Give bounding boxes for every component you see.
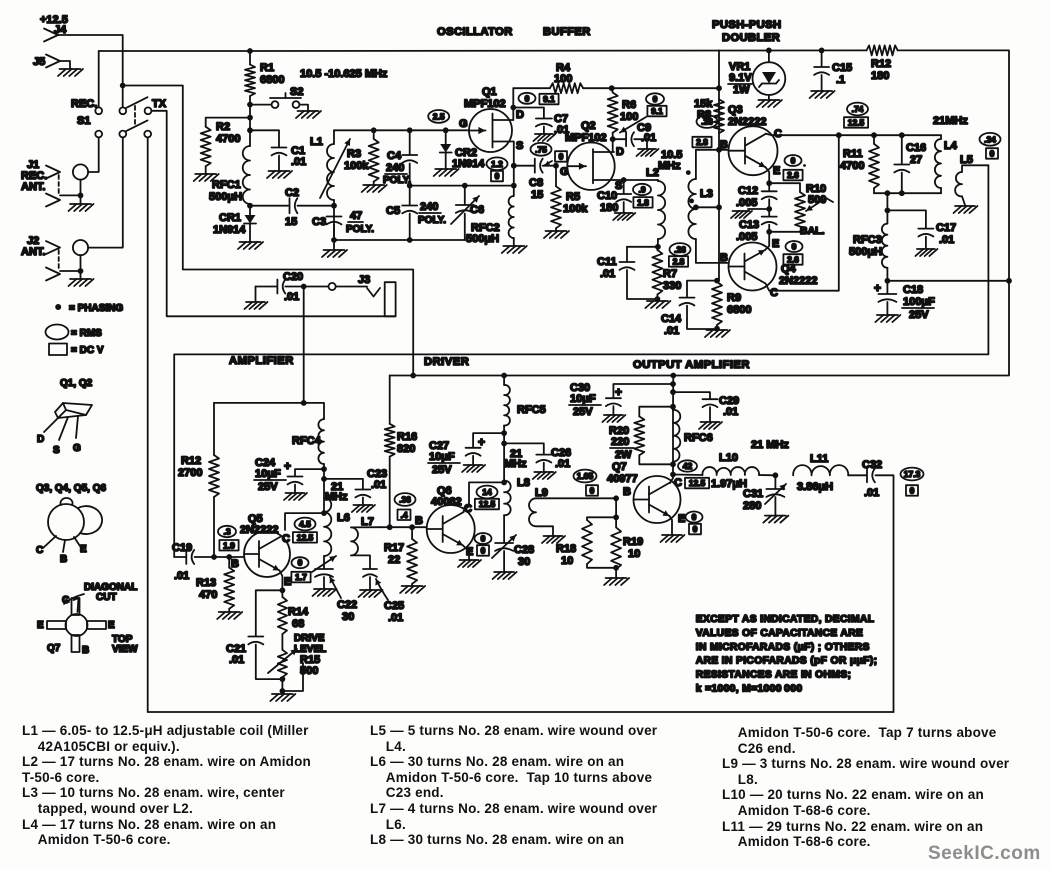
svg-text:Q7: Q7 bbox=[47, 643, 61, 654]
ground amp bbox=[270, 694, 295, 701]
resistor R16 bbox=[385, 376, 417, 528]
legend Q3 package bbox=[36, 498, 102, 565]
svg-text:R6: R6 bbox=[622, 99, 636, 111]
svg-text:AMPLIFIER: AMPLIFIER bbox=[229, 355, 294, 367]
svg-text:G: G bbox=[73, 443, 81, 454]
svg-text:OSCILLATOR: OSCILLATOR bbox=[437, 26, 513, 38]
ground CR2 bbox=[434, 169, 459, 176]
ground R2 bbox=[194, 174, 219, 181]
svg-text:MPF102: MPF102 bbox=[464, 98, 506, 110]
svg-text:L10: L10 bbox=[719, 452, 738, 464]
box 0 under 1.2 bbox=[491, 171, 503, 182]
inductor RFC2 bbox=[466, 186, 514, 245]
svg-text:40977: 40977 bbox=[607, 473, 638, 485]
svg-text:DOUBLER: DOUBLER bbox=[722, 32, 780, 44]
node R6 top bbox=[609, 85, 615, 91]
svg-text:220: 220 bbox=[611, 436, 629, 448]
J2 shield arrow bbox=[46, 268, 60, 281]
svg-text:E: E bbox=[773, 165, 780, 177]
tank bottom rail bbox=[874, 192, 941, 194]
node R7 bottom bbox=[655, 296, 661, 302]
legend Q1 Q2 title bbox=[60, 378, 93, 389]
svg-text:.005: .005 bbox=[736, 197, 757, 209]
node R13 top bbox=[226, 554, 232, 560]
ground R13 bbox=[217, 612, 242, 619]
svg-text:.01: .01 bbox=[723, 406, 738, 418]
node Q2 D bbox=[610, 136, 616, 142]
node R15 wiper join bbox=[280, 688, 286, 694]
label DRIVER bbox=[424, 356, 469, 368]
svg-text:21MHz: 21MHz bbox=[933, 115, 968, 127]
svg-text:.34: .34 bbox=[984, 134, 996, 144]
ground RFC2 bbox=[502, 246, 527, 253]
legend RMS bbox=[46, 325, 103, 340]
svg-text:BAL.: BAL. bbox=[800, 225, 825, 237]
wire J5 to ground bbox=[60, 61, 70, 68]
label G Q1 bbox=[459, 118, 468, 130]
svg-text:820: 820 bbox=[397, 443, 415, 455]
mid rail bbox=[410, 185, 514, 187]
svg-text:500μH: 500μH bbox=[209, 191, 242, 203]
svg-text:180: 180 bbox=[871, 70, 889, 82]
svg-text:R12: R12 bbox=[871, 58, 891, 70]
ground C12 C13 bbox=[731, 209, 769, 218]
svg-text:Q3: Q3 bbox=[728, 104, 743, 116]
wire J1 shield bbox=[60, 180, 81, 203]
legend diagonal cut bbox=[64, 582, 137, 604]
capacitor C21 bbox=[226, 590, 282, 679]
capacitor C23 bbox=[324, 468, 387, 504]
svg-text:10: 10 bbox=[561, 555, 573, 567]
J1 shield arrow bbox=[46, 194, 60, 207]
wire L3 center tap bbox=[696, 206, 719, 208]
oval 0 at R6 bbox=[646, 93, 664, 104]
inductor L11 bbox=[793, 453, 866, 493]
node R12a bottom bbox=[211, 554, 217, 560]
svg-text:R5: R5 bbox=[566, 191, 580, 203]
svg-text:.01: .01 bbox=[371, 479, 386, 491]
wire TX row2 down (shield) bbox=[147, 137, 149, 712]
ground CR1 bbox=[238, 242, 263, 249]
svg-text:2N2222: 2N2222 bbox=[240, 524, 279, 536]
svg-text:RFC1: RFC1 bbox=[212, 179, 241, 191]
label E Q3 bbox=[773, 165, 780, 177]
capacitor C7 bbox=[513, 108, 569, 137]
svg-text:100k: 100k bbox=[344, 160, 369, 172]
buffer rail right bbox=[583, 87, 719, 89]
capacitor C11 bbox=[597, 247, 658, 299]
label 21 MHz driver bbox=[504, 448, 527, 470]
buffer rail left bbox=[513, 87, 550, 89]
svg-text:R1: R1 bbox=[260, 62, 274, 74]
node S C8 bbox=[511, 163, 517, 169]
ground C28 bbox=[493, 572, 517, 579]
svg-text:RFC4: RFC4 bbox=[292, 435, 322, 447]
node Q5 E bbox=[280, 587, 286, 593]
svg-text:.01: .01 bbox=[291, 156, 306, 168]
svg-text:ANT.: ANT. bbox=[21, 181, 45, 193]
jack J3 bbox=[336, 274, 396, 316]
svg-text:C: C bbox=[282, 533, 290, 545]
wire +12.5 branch to driver feed bbox=[123, 86, 414, 376]
svg-text:L8: L8 bbox=[517, 477, 530, 489]
svg-text:.74: .74 bbox=[852, 104, 864, 114]
oval .75 bbox=[531, 143, 552, 156]
coil list column 3 bbox=[722, 725, 1042, 850]
svg-text:R13: R13 bbox=[196, 577, 216, 589]
svg-text:ANT.: ANT. bbox=[21, 246, 45, 258]
svg-text:Q1, Q2: Q1, Q2 bbox=[60, 378, 93, 389]
node C6 top bbox=[462, 183, 468, 189]
svg-text:MHz: MHz bbox=[658, 160, 681, 172]
ground Q6 bbox=[458, 560, 481, 567]
svg-text:E: E bbox=[772, 238, 779, 250]
svg-text:.1: .1 bbox=[836, 74, 845, 86]
ground C1 bbox=[267, 171, 292, 178]
box 1.9 bbox=[219, 540, 238, 551]
node R20 top tap bbox=[670, 404, 676, 410]
svg-text:0: 0 bbox=[693, 524, 698, 534]
resistor R19 bbox=[611, 498, 643, 569]
ground C30 bbox=[602, 415, 625, 422]
ground C17 bbox=[915, 249, 937, 256]
box 12.5 Q7 bbox=[685, 478, 709, 489]
oval 17.3 bbox=[901, 468, 924, 481]
svg-text:6800: 6800 bbox=[727, 304, 751, 316]
ground C31 bbox=[763, 516, 788, 523]
oval 2.5 bbox=[428, 110, 449, 123]
node L6 tap bbox=[321, 510, 327, 516]
oval 1.05 bbox=[574, 470, 597, 483]
svg-text:C15: C15 bbox=[832, 62, 852, 74]
svg-text:J5: J5 bbox=[33, 56, 45, 68]
transistor Q3 bbox=[728, 104, 778, 175]
svg-text:1N914: 1N914 bbox=[452, 158, 485, 170]
capacitor C6 trimmer bbox=[451, 186, 484, 240]
svg-text:VIEW: VIEW bbox=[112, 644, 138, 655]
ground C9 bbox=[637, 149, 659, 156]
svg-text:C11: C11 bbox=[597, 256, 617, 268]
J2 connector bbox=[21, 235, 60, 258]
collector rail bbox=[766, 134, 941, 136]
capacitor C12 bbox=[736, 183, 777, 216]
node C24 tap bbox=[321, 466, 327, 472]
label E Q4 bbox=[772, 238, 779, 250]
svg-text:0: 0 bbox=[298, 558, 303, 568]
svg-text:0: 0 bbox=[481, 534, 486, 544]
svg-text:Q2: Q2 bbox=[581, 120, 596, 132]
svg-text:k =1000, M=1000 000: k =1000, M=1000 000 bbox=[696, 684, 803, 695]
svg-text:E: E bbox=[678, 513, 685, 525]
inductor L5 bbox=[955, 154, 988, 205]
wire S1 pole row2 to J2 bbox=[88, 137, 123, 247]
transistor Q7 bbox=[607, 461, 681, 523]
bottom rail bbox=[334, 239, 465, 241]
svg-text:0: 0 bbox=[495, 171, 500, 181]
wire REC contact up bbox=[98, 51, 100, 107]
svg-text:E: E bbox=[37, 620, 44, 631]
svg-text:L1: L1 bbox=[310, 136, 323, 148]
svg-text:10μF: 10μF bbox=[570, 393, 596, 405]
svg-text:0: 0 bbox=[525, 93, 530, 103]
svg-text:9.1V: 9.1V bbox=[729, 72, 752, 84]
svg-text:= DC V: = DC V bbox=[71, 345, 104, 356]
box 9.1 at R6 bbox=[620, 106, 667, 133]
oval .26 upper bbox=[697, 115, 718, 128]
node R1 top bbox=[247, 48, 253, 54]
svg-text:100μF: 100μF bbox=[903, 296, 935, 308]
label G Q2 bbox=[560, 166, 569, 178]
capacitor C14 bbox=[661, 281, 717, 337]
label B Q5 bbox=[231, 558, 239, 570]
resistor R9 bbox=[712, 281, 751, 329]
node RFC1 bottom bbox=[247, 203, 253, 209]
node Q7 base bbox=[613, 495, 619, 501]
inductor L6 bbox=[324, 498, 350, 556]
switch S1 row1 bbox=[95, 97, 151, 114]
svg-text:27: 27 bbox=[910, 154, 922, 166]
svg-text:25V: 25V bbox=[258, 481, 278, 493]
label D Q2 bbox=[616, 146, 624, 158]
svg-text:.01: .01 bbox=[939, 234, 954, 246]
svg-text:R7: R7 bbox=[663, 268, 677, 280]
svg-text:MPF102: MPF102 bbox=[565, 132, 607, 144]
svg-text:.36: .36 bbox=[399, 495, 411, 505]
label B Q3 bbox=[720, 139, 728, 151]
svg-text:L11: L11 bbox=[810, 453, 828, 465]
node L1 mid bbox=[331, 203, 337, 209]
oval .34 bbox=[980, 133, 1001, 146]
ground L5 bbox=[954, 206, 978, 213]
wire L3 bottom to Q4 base bbox=[696, 239, 729, 263]
svg-text:S2: S2 bbox=[290, 86, 303, 98]
svg-text:+: + bbox=[284, 459, 291, 473]
svg-text:.01: .01 bbox=[641, 132, 656, 144]
transistor Q5 bbox=[240, 513, 290, 577]
label BUFFER bbox=[543, 26, 591, 38]
J1 dashed bbox=[58, 175, 60, 196]
svg-text:0: 0 bbox=[692, 512, 697, 522]
node Q4 coll rail bbox=[836, 132, 842, 138]
resistor R13 bbox=[196, 557, 234, 611]
box 0 Q6e bbox=[477, 545, 489, 556]
wire L5 output down-left bbox=[174, 165, 988, 557]
label C Q3 bbox=[774, 128, 782, 140]
svg-text:CR1: CR1 bbox=[219, 212, 241, 224]
coil list column 1 bbox=[22, 723, 367, 848]
inductor L10 bbox=[673, 452, 775, 490]
wire Q7 collector bbox=[670, 410, 673, 483]
ground C22 bbox=[313, 589, 337, 596]
node C29 tap bbox=[670, 389, 676, 395]
capacitor C5 bbox=[386, 186, 446, 240]
svg-text:C5: C5 bbox=[386, 205, 400, 217]
J1 jack circle bbox=[73, 164, 88, 179]
svg-text:+: + bbox=[874, 281, 881, 295]
svg-text:G: G bbox=[560, 166, 569, 178]
oval 0 Q4e bbox=[786, 241, 803, 252]
svg-text:2.5: 2.5 bbox=[433, 111, 445, 121]
label 10.5-10.625 MHz bbox=[300, 68, 388, 80]
ground C27 bbox=[462, 465, 485, 472]
label E Q7 bbox=[678, 513, 685, 525]
box 12.5 Q6 bbox=[475, 499, 499, 510]
svg-text:4.5: 4.5 bbox=[299, 519, 311, 529]
wire RFC1 to CR1 bbox=[249, 204, 251, 215]
wire S to L2 bbox=[624, 179, 658, 181]
resistor R12 doubler bbox=[867, 45, 898, 82]
svg-text:C18: C18 bbox=[903, 284, 923, 296]
oval 0 Q6e bbox=[475, 533, 492, 544]
node C18 rail bbox=[1006, 278, 1012, 284]
wire Q6 emitter bbox=[464, 546, 470, 559]
inductor RFC4 bbox=[292, 419, 324, 513]
svg-text:.01: .01 bbox=[864, 487, 879, 499]
label B Q7 bbox=[623, 486, 631, 498]
svg-text:500: 500 bbox=[808, 194, 826, 206]
resistor R5 bbox=[551, 166, 588, 230]
resistor R11 bbox=[840, 135, 879, 193]
svg-text:1.7: 1.7 bbox=[295, 572, 307, 582]
svg-text:POLY.: POLY. bbox=[383, 175, 411, 186]
wire PA feed bbox=[672, 376, 674, 410]
box 2.6 Q3e bbox=[783, 170, 802, 181]
node PA feed bbox=[670, 373, 676, 379]
node R15 bottom bbox=[280, 676, 286, 682]
svg-text:CUT: CUT bbox=[96, 592, 117, 603]
svg-text:4700: 4700 bbox=[840, 160, 864, 172]
capacitor C31 trimmer bbox=[743, 475, 786, 514]
oval .3 bbox=[218, 526, 236, 537]
inductor L4 bbox=[935, 135, 958, 193]
node J1 shield bbox=[78, 193, 84, 199]
legend Q3-Q6 title bbox=[36, 483, 106, 494]
svg-text:Q7: Q7 bbox=[612, 461, 627, 473]
wire L3 top to Q3 base bbox=[696, 150, 729, 179]
ground C10 bbox=[613, 213, 635, 220]
svg-text:C: C bbox=[36, 545, 43, 556]
node Q2 gate bbox=[553, 163, 559, 169]
svg-text:0: 0 bbox=[559, 152, 564, 162]
capacitor C2 bbox=[250, 187, 334, 228]
svg-text:IN MICROFARADS (μF) ; OTHERS: IN MICROFARADS (μF) ; OTHERS bbox=[696, 642, 870, 653]
transistor Q1 bbox=[464, 86, 513, 152]
svg-text:R16: R16 bbox=[397, 431, 417, 443]
node R3 top bbox=[371, 127, 377, 133]
svg-text:D: D bbox=[37, 434, 44, 445]
capacitor C26 bbox=[504, 443, 571, 471]
svg-text:POLY.: POLY. bbox=[346, 224, 374, 235]
node R2 tap bbox=[247, 115, 253, 121]
svg-text:500μH: 500μH bbox=[466, 233, 499, 245]
oval 0 Q5e bbox=[292, 557, 309, 568]
svg-text:S: S bbox=[53, 445, 60, 456]
svg-text:L3: L3 bbox=[700, 188, 713, 200]
main rail right bbox=[250, 49, 867, 52]
resistor R7 bbox=[652, 247, 681, 300]
node +12.5 branch bbox=[120, 83, 126, 89]
oval 0 at C7 bbox=[519, 93, 536, 104]
node C1 tap bbox=[247, 127, 253, 133]
ground C20 bbox=[245, 287, 268, 310]
wire Q2 source bbox=[614, 179, 624, 181]
svg-text:9.1: 9.1 bbox=[543, 94, 555, 104]
svg-text:R2: R2 bbox=[216, 121, 230, 133]
svg-text:1.9: 1.9 bbox=[223, 541, 235, 551]
diode CR2 bbox=[440, 130, 486, 170]
wire J2 shield bbox=[60, 255, 81, 278]
svg-text:2N2222: 2N2222 bbox=[728, 116, 767, 128]
main supply rail bbox=[99, 50, 250, 52]
svg-text:R18: R18 bbox=[556, 543, 576, 555]
svg-text:MHz: MHz bbox=[504, 458, 527, 470]
label S1 bbox=[77, 115, 90, 127]
svg-text:1.2: 1.2 bbox=[491, 159, 503, 169]
capacitor C10 bbox=[597, 180, 631, 214]
svg-text:R3: R3 bbox=[347, 148, 361, 160]
wire Q5 emitter bbox=[280, 571, 283, 591]
node C31 tap bbox=[773, 472, 779, 478]
svg-text:3.86μH: 3.86μH bbox=[797, 481, 833, 493]
ground R18 R19 bbox=[604, 568, 629, 585]
resistor R2 bbox=[201, 118, 250, 173]
label C Q5 bbox=[282, 533, 290, 545]
oval 14 bbox=[477, 486, 498, 499]
svg-text:470: 470 bbox=[199, 589, 217, 601]
svg-text:21 MHz: 21 MHz bbox=[751, 439, 789, 451]
ground R3 bbox=[362, 185, 387, 192]
svg-text:2.8: 2.8 bbox=[696, 137, 708, 147]
node L3 tap bbox=[693, 204, 699, 210]
svg-text:C25: C25 bbox=[384, 600, 404, 612]
svg-text:2W: 2W bbox=[615, 449, 632, 461]
svg-text:C8: C8 bbox=[529, 177, 543, 189]
label D Q1 bbox=[516, 109, 524, 121]
box 0 Q7e bbox=[689, 524, 701, 535]
svg-text:C10: C10 bbox=[597, 190, 617, 202]
svg-text:25V: 25V bbox=[432, 464, 452, 476]
svg-text:BUFFER: BUFFER bbox=[543, 26, 591, 38]
svg-text:S1: S1 bbox=[77, 115, 90, 127]
svg-text:D: D bbox=[516, 109, 524, 121]
node C26 tap bbox=[501, 441, 507, 447]
J2 jack circle bbox=[73, 240, 88, 255]
svg-text:10μF: 10μF bbox=[429, 451, 455, 463]
inductor L2 bbox=[646, 167, 665, 247]
svg-text:C: C bbox=[674, 477, 682, 489]
svg-text:C2: C2 bbox=[285, 187, 299, 199]
node S Q2 bbox=[621, 177, 627, 183]
node tank bot bbox=[885, 190, 891, 196]
label 10.5 MHz buffer bbox=[658, 149, 682, 172]
svg-text:0: 0 bbox=[791, 156, 796, 166]
capacitor C32 bbox=[862, 459, 894, 712]
phasing dot L3 top bbox=[686, 170, 691, 175]
box 0 Q7b bbox=[586, 485, 598, 496]
capacitor C30 bbox=[569, 382, 673, 418]
ground L9 bbox=[542, 536, 565, 543]
resistor R12 amp bbox=[178, 403, 219, 557]
svg-text:MHz: MHz bbox=[325, 491, 348, 503]
svg-text:R14: R14 bbox=[288, 606, 309, 618]
node C5 bottom bbox=[407, 237, 413, 243]
svg-text:12.5: 12.5 bbox=[848, 118, 865, 128]
bias line bbox=[718, 50, 720, 280]
svg-text:30: 30 bbox=[518, 556, 530, 568]
ground C23 bbox=[352, 505, 375, 512]
label C Q6 bbox=[464, 503, 472, 515]
node RFC2 top bbox=[511, 183, 517, 189]
